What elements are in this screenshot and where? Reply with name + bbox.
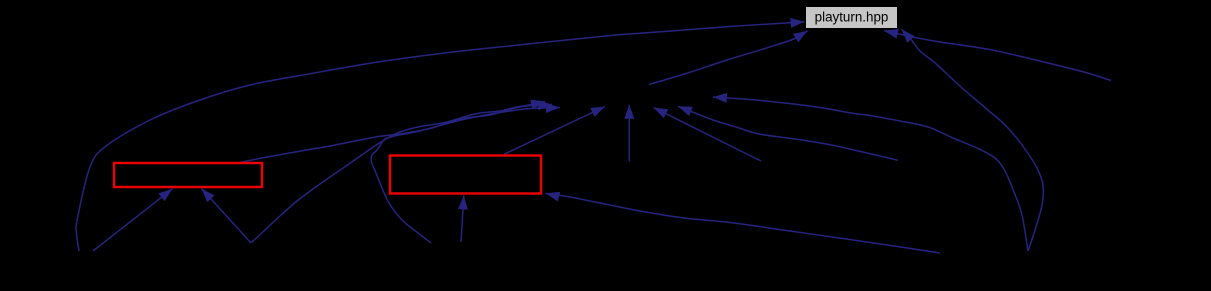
- edge: lower-right node -> mid node: [678, 106, 898, 160]
- edge: bottom-left node -> playturn.hpp (long top curve): [76, 22, 804, 251]
- edge: bottom-right node -> red box 2 (long shallow arrow): [545, 193, 940, 253]
- edge: lower node -> mid node (vertical arrow): [628, 105, 630, 162]
- edge: red box 1 -> mid cluster: [241, 102, 546, 163]
- node: playturn.hpp (grey box): [806, 7, 898, 29]
- edge: mid node -> playturn.hpp (bottom-left arrow): [649, 31, 808, 85]
- edge: bottom node -> red box 1 (left arrow): [93, 189, 173, 251]
- edge: right node -> playturn.hpp (far right line): [884, 31, 1111, 81]
- edge: bottom node -> red box 2 (vertical arrow): [461, 196, 464, 243]
- edge: bottom-right node -> playturn.hpp (right bowed curve): [902, 29, 1044, 251]
- edge: bottom node -> mid cluster (lower swoop): [251, 105, 552, 244]
- edge: bottom node -> red box 1 (right arrow): [202, 189, 252, 244]
- svg-text:playturn.hpp: playturn.hpp: [815, 10, 889, 25]
- edge: lower node -> mid node (diagonal arrow): [654, 108, 762, 162]
- node: truncated red box 2: [390, 156, 541, 194]
- node: truncated red box 1: [114, 163, 262, 187]
- edge: bottom-right node -> mid node (long flat curve): [713, 97, 1028, 251]
- edge: red box 2 -> mid node: [504, 107, 605, 155]
- edge: bottom node -> mid cluster (C-shaped swoop): [371, 108, 560, 244]
